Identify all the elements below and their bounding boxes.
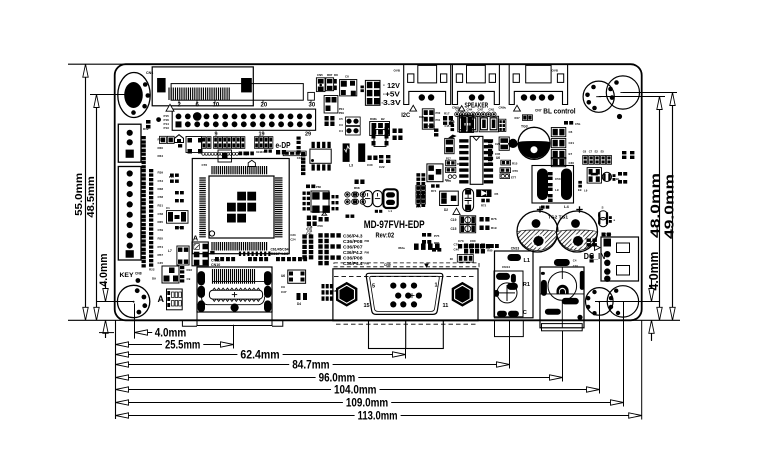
connector CN11/CN10 (HDMI)	[182, 259, 282, 327]
IC U13	[0, 0, 1, 1]
svg-text:C4: C4	[573, 259, 577, 263]
svg-text:29: 29	[305, 132, 311, 138]
svg-text:C30: C30	[569, 161, 575, 165]
svg-text:84.7mm: 84.7mm	[292, 360, 329, 372]
label OVB left	[394, 69, 401, 73]
resistor pads D11 P12	[160, 136, 175, 143]
svg-text:CN5: CN5	[317, 73, 323, 77]
svg-text:D5: D5	[495, 192, 499, 196]
svg-text:R35: R35	[158, 220, 164, 224]
svg-text:R76: R76	[513, 169, 519, 173]
marker pentagon 2	[248, 160, 255, 166]
diode D5 resistor R72	[476, 189, 498, 207]
svg-text:e-DP: e-DP	[276, 140, 291, 150]
svg-text:C33/P4.3C: C33/P4.3C	[271, 252, 290, 256]
svg-text:CN13: CN13	[511, 247, 520, 251]
jumper row speaker (CN0 CN4 CN7 CN1)	[455, 103, 499, 132]
svg-text:C6: C6	[583, 149, 587, 153]
svg-text:C35: C35	[495, 152, 501, 156]
capacitor column C6 C21 E7 C30	[551, 128, 574, 167]
capacitor grid column left	[416, 173, 425, 207]
labels CN designators	[452, 106, 507, 110]
diode D8	[334, 73, 338, 90]
svg-text:D9: D9	[152, 277, 156, 281]
via pad with labels R22 D9	[136, 268, 157, 283]
svg-text:C78: C78	[446, 179, 451, 183]
svg-text:352a: 352a	[398, 246, 405, 250]
diode D3	[509, 139, 517, 147]
resistor column R36..C45 (left stack)	[142, 136, 164, 268]
svg-text:10: 10	[213, 103, 220, 109]
svg-text:30: 30	[309, 103, 316, 109]
label I2C	[401, 112, 410, 119]
capacitor TG2 and capacitor TG1 (electrolytic)	[517, 206, 598, 252]
svg-text:R34: R34	[158, 154, 164, 158]
capacitor pads right of Y1	[332, 195, 339, 210]
marker triangle 3	[514, 105, 521, 111]
capacitor pads near CN4	[587, 239, 597, 263]
svg-text:3.3V: 3.3V	[383, 100, 401, 107]
svg-text:104.0mm: 104.0mm	[334, 385, 377, 397]
connector CN0 (JST top 1)	[404, 64, 451, 104]
connector CN12 (DC jack barrel)	[540, 259, 584, 331]
svg-text:96.0mm: 96.0mm	[319, 373, 356, 385]
capacitor pads E6 C20	[618, 151, 634, 184]
svg-text:C4: C4	[339, 129, 343, 133]
resistor network RN6	[445, 119, 506, 131]
capacitor row C55 row	[398, 244, 440, 251]
diode D2	[440, 191, 459, 212]
resistor R90	[602, 233, 611, 237]
svg-text:P17: P17	[446, 157, 451, 161]
svg-text:CN6: CN6	[146, 71, 153, 75]
IC U6 (SOP-16)	[459, 136, 500, 184]
mounting hole TL (CN6 side)	[118, 73, 150, 118]
svg-text:C: C	[523, 310, 527, 316]
svg-text:L9: L9	[555, 188, 559, 192]
svg-text:+5V: +5V	[385, 92, 400, 99]
connector CN7 (JST top 3 BL)	[509, 64, 567, 104]
connector CN9b (JST top 2 speaker)	[452, 64, 499, 104]
inductor L1b	[383, 189, 397, 213]
svg-text:C5b: C5b	[575, 122, 581, 126]
dimension 49.0mm (right)	[623, 93, 677, 321]
svg-text:R36b: R36b	[370, 117, 377, 121]
svg-text:E77: E77	[511, 176, 517, 180]
diode D10	[146, 120, 151, 129]
capacitor C23	[499, 137, 513, 150]
marker fiducial pentagon	[175, 135, 184, 143]
svg-text:CN14: CN14	[502, 265, 510, 269]
svg-text:C10: C10	[573, 264, 579, 268]
svg-text:C24: C24	[290, 238, 296, 242]
capacitor grid C75	[416, 185, 426, 209]
dimension 48.5mm (left)	[85, 95, 134, 321]
svg-text:R30: R30	[158, 146, 164, 150]
svg-text:C36/P4.3: C36/P4.3	[343, 233, 363, 238]
capacitor C16	[445, 135, 457, 154]
capacitor pads C2 C16	[393, 129, 403, 141]
svg-text:E2: E2	[595, 149, 599, 153]
svg-text:CN4: CN4	[467, 108, 473, 112]
svg-text:C80: C80	[470, 239, 476, 243]
svg-text:P01: P01	[436, 118, 441, 122]
svg-text:L7: L7	[168, 249, 172, 253]
svg-text:CN1: CN1	[489, 108, 495, 112]
IC U6b	[281, 270, 306, 283]
svg-text:BL control: BL control	[543, 108, 575, 115]
IC U15 with diode BL	[578, 168, 620, 193]
svg-text:F10: F10	[169, 175, 174, 179]
svg-text:R55: R55	[158, 237, 164, 241]
svg-text:I2C: I2C	[401, 112, 410, 119]
resistor R68	[354, 180, 365, 191]
svg-text:31423: 31423	[256, 150, 264, 154]
capacitor row under U2 (C61..C68)	[215, 252, 307, 262]
connector CN8 (KEY 9-pin)	[118, 167, 141, 261]
capacitor row C6b C7 E2 E5	[583, 149, 612, 164]
connector power pads (12V +5V 3.3V)	[365, 80, 401, 107]
svg-text:P66: P66	[316, 185, 321, 189]
dimension 62.4mm (bottom)	[116, 349, 406, 362]
connector CN4	[601, 233, 639, 282]
svg-text:R47: R47	[515, 116, 521, 120]
svg-text:P09: P09	[339, 111, 345, 115]
svg-text:R22: R22	[149, 268, 155, 272]
svg-text:48.5mm: 48.5mm	[85, 176, 97, 217]
marker triangle 1	[410, 105, 417, 111]
svg-text:C26: C26	[495, 142, 501, 146]
svg-text:C58: C58	[158, 195, 164, 199]
svg-text:S: S	[602, 206, 604, 210]
diode D4	[297, 293, 308, 306]
fuse F50	[318, 217, 329, 228]
svg-text:C15: C15	[445, 124, 450, 128]
svg-text:A: A	[158, 294, 165, 304]
svg-text:E9: E9	[578, 188, 582, 192]
mounting hole TR pair	[583, 76, 639, 119]
svg-text:R87: R87	[327, 73, 333, 77]
dimension 109.0mm (bottom)	[116, 302, 624, 410]
svg-text:CN7: CN7	[478, 108, 484, 112]
svg-text:C76: C76	[202, 163, 208, 167]
marker triangle 4	[453, 208, 460, 214]
capacitor C19 C15 (tantalum)	[451, 216, 497, 233]
svg-text:20: 20	[261, 103, 268, 109]
svg-text:1: 1	[435, 283, 438, 289]
resistor grid RP2	[370, 117, 390, 136]
svg-text:109.0mm: 109.0mm	[346, 398, 388, 410]
svg-text:C30: C30	[367, 163, 373, 167]
capacitor pads C63 C64	[345, 192, 366, 204]
IC U7	[372, 127, 389, 147]
resistor pads RP I2C	[419, 109, 441, 129]
mounting hole BR pair	[586, 286, 639, 317]
svg-text:MD-97FVH-EDP: MD-97FVH-EDP	[364, 219, 425, 231]
svg-text:C58: C58	[158, 212, 164, 216]
svg-text:15: 15	[364, 303, 370, 309]
svg-text:L1: L1	[389, 209, 393, 213]
svg-text:C59: C59	[158, 228, 164, 232]
IC U12 with label A	[158, 289, 183, 310]
svg-text:5: 5	[372, 284, 375, 290]
svg-text:38: 38	[450, 257, 453, 261]
svg-text:D2: D2	[444, 208, 448, 212]
svg-text:11: 11	[443, 303, 449, 309]
svg-text:4.0mm: 4.0mm	[98, 253, 110, 286]
svg-text:Rev:02: Rev:02	[376, 233, 395, 240]
svg-text:C3: C3	[339, 123, 343, 127]
resistor pads P75 P80	[422, 233, 441, 252]
IC U11	[162, 266, 179, 283]
label Rev02	[376, 233, 395, 240]
dimension 4.0mm (bottom)	[135, 304, 187, 340]
svg-text:C21: C21	[569, 141, 575, 145]
label BL control	[535, 108, 576, 115]
label e-DP	[276, 140, 291, 150]
svg-text:55.0mm: 55.0mm	[73, 173, 85, 216]
capacitor C5 C3 C4	[339, 117, 360, 135]
IC U5	[310, 142, 331, 171]
svg-text:62.4mm: 62.4mm	[240, 350, 279, 362]
svg-text:R80: R80	[487, 249, 493, 253]
svg-text:L1: L1	[524, 258, 530, 264]
capacitor grid C33 C24	[290, 225, 313, 259]
connector CN13 (audio jack)	[494, 247, 533, 337]
svg-text:C36/P08: C36/P08	[343, 256, 363, 261]
svg-text:B2: B2	[381, 117, 385, 121]
svg-text:C75: C75	[416, 205, 421, 209]
pin header CN12 (2x15)	[166, 104, 316, 137]
capacitor E1 E8	[598, 206, 615, 227]
resistor networks RN1 RN2 RN3 (eDP rows)	[202, 137, 306, 161]
capacitor C14	[428, 124, 438, 137]
connector CN6 (FFC/eDP 30-pin)	[146, 67, 316, 109]
diode D1	[427, 164, 449, 182]
capacitor row C73 C80	[458, 239, 499, 249]
resistor E11	[375, 210, 383, 213]
svg-text:C33: C33	[290, 233, 296, 237]
svg-text:KEY: KEY	[120, 272, 135, 279]
svg-text:25.5mm: 25.5mm	[165, 340, 200, 352]
svg-text:R31: R31	[158, 204, 164, 208]
resistor R33	[541, 206, 549, 209]
svg-text:P75: P75	[434, 234, 440, 238]
svg-text:CN9c: CN9c	[499, 106, 507, 110]
svg-text:R39: R39	[158, 171, 164, 175]
svg-text:C54: C54	[158, 179, 164, 183]
extension line left edge	[115, 320, 117, 419]
capacitor pads C31 C34	[301, 154, 305, 176]
dimension 25.5mm (bottom)	[116, 325, 234, 352]
connector CN3 (3-pin left)	[118, 124, 149, 162]
capacitor C28	[361, 86, 364, 93]
svg-text:OVB: OVB	[394, 69, 401, 73]
svg-text:R16: R16	[187, 268, 193, 272]
dimension 48.0mm (right)	[599, 97, 665, 321]
capacitor C18	[0, 0, 1, 1]
svg-text:F50: F50	[318, 224, 324, 228]
resistor R47	[515, 115, 533, 121]
svg-text:R1: R1	[523, 282, 530, 288]
svg-text:C36/P4.4: C36/P4.4	[343, 261, 363, 266]
resistor column R15 R76 E77	[500, 160, 518, 179]
svg-text:A: A	[193, 234, 199, 243]
svg-text:C50: C50	[555, 177, 561, 181]
svg-text:L4: L4	[564, 204, 569, 209]
device TG3	[518, 125, 550, 160]
svg-text:CN0b: CN0b	[452, 106, 460, 110]
svg-text:≡: ≡	[383, 84, 385, 88]
svg-text:TG2 TG1: TG2 TG1	[548, 215, 569, 220]
svg-text:R15: R15	[512, 162, 518, 166]
svg-text:12V: 12V	[387, 83, 400, 90]
capacitor pads D6 D7	[325, 116, 335, 126]
svg-text:R57: R57	[158, 253, 164, 257]
svg-text:U6: U6	[281, 274, 285, 278]
svg-text:CN8: CN8	[135, 272, 142, 276]
resistor R81	[346, 215, 355, 218]
svg-text:CN7: CN7	[535, 109, 542, 113]
svg-text:4.0mm: 4.0mm	[155, 328, 187, 340]
svg-text:C87: C87	[333, 289, 339, 293]
resistor pads left of Y1	[303, 192, 311, 211]
svg-text:R38: R38	[158, 187, 164, 191]
capacitor column C26 C35	[488, 140, 501, 166]
svg-text:L3: L3	[349, 164, 353, 168]
component D14	[218, 150, 232, 162]
capacitor column C51..C48 (left stack 2)	[149, 169, 153, 267]
svg-text:U6: U6	[496, 156, 500, 160]
svg-text:R68: R68	[354, 186, 360, 190]
svg-text:R72: R72	[481, 204, 487, 208]
label OVB right	[552, 69, 559, 73]
svg-text:C1: C1	[166, 206, 170, 210]
svg-text:E5: E5	[601, 149, 605, 153]
labels C9 C37 C87	[281, 285, 338, 294]
svg-text:C22: C22	[379, 165, 385, 169]
dimension 96.0mm (bottom)	[116, 331, 563, 385]
svg-text:113.0mm: 113.0mm	[358, 411, 398, 423]
crystal Y1 (X1)	[311, 191, 330, 215]
svg-text:R96: R96	[419, 115, 424, 119]
marker triangle 2	[459, 106, 465, 111]
center mark TR holes	[596, 93, 625, 97]
resistor P66	[306, 185, 321, 190]
resistor R16 capacitor C9	[180, 266, 192, 283]
svg-text:C40: C40	[454, 248, 460, 252]
svg-text:C7: C7	[589, 149, 593, 153]
svg-text:C41: C41	[307, 229, 313, 233]
svg-text:≡: ≡	[383, 93, 385, 97]
svg-text:D8: D8	[334, 73, 338, 77]
net labels C61 block	[210, 248, 289, 256]
svg-text:OVB: OVB	[552, 69, 559, 73]
svg-text:P00: P00	[436, 111, 441, 115]
dimension 113.0mm (bottom)	[116, 320, 642, 422]
capacitor C5c	[564, 121, 581, 126]
svg-text:P86: P86	[365, 239, 370, 243]
resistor R87	[326, 73, 334, 91]
label DC_IN	[584, 245, 606, 261]
resistor R74b	[431, 184, 440, 193]
connector CN5	[316, 73, 325, 92]
svg-text:D4: D4	[297, 302, 301, 306]
resistor array RN5	[322, 284, 333, 301]
label KEY	[120, 272, 142, 279]
svg-text:C73b: C73b	[428, 124, 435, 128]
test point P15 P16 P14 P13	[156, 114, 169, 130]
svg-text:L9: L9	[584, 189, 588, 193]
capacitor block C13	[460, 116, 474, 133]
connector CN16 (A-grid)	[192, 234, 208, 266]
extension line bottom right	[628, 319, 680, 321]
dimension 4.0mm (left)	[96, 253, 134, 338]
svg-text:48.0mm: 48.0mm	[648, 173, 663, 238]
svg-text:C8: C8	[345, 75, 349, 79]
resistor P17 R77 capacitor C78	[446, 157, 463, 184]
dimension 84.7mm (bottom)	[116, 337, 510, 372]
svg-text:C15: C15	[451, 227, 457, 231]
capacitor pads C22 C12	[379, 155, 390, 169]
capacitor C1 resistor R65	[166, 174, 188, 230]
svg-text:R76: R76	[491, 217, 497, 221]
svg-text:R74: R74	[158, 245, 164, 249]
dimension 104.0mm (bottom)	[116, 302, 600, 397]
capacitor C30	[367, 156, 378, 168]
svg-text:CN9: CN9	[384, 263, 391, 267]
IC U9	[168, 246, 189, 265]
svg-text:R19: R19	[491, 226, 497, 230]
svg-text:TG3: TG3	[521, 125, 528, 129]
capacitor C33 C34	[363, 191, 382, 207]
mounting hole BL (KEY side)	[117, 285, 149, 317]
svg-text:C36/P4.2: C36/P4.2	[343, 250, 363, 255]
capacitor C40 C41	[306, 216, 317, 236]
capacitor C17 (polarized)	[463, 189, 474, 212]
svg-text:C9: C9	[187, 277, 191, 281]
capacitor cluster C79 C40 C41b	[450, 243, 493, 263]
svg-text:E7: E7	[569, 152, 573, 156]
PCB board outline	[115, 64, 642, 320]
svg-text:P75: P75	[487, 244, 492, 248]
svg-text:P86: P86	[365, 261, 370, 265]
net labels C36/P4.x block	[318, 233, 369, 266]
svg-text:≡: ≡	[381, 101, 383, 105]
svg-text:C5: C5	[339, 117, 343, 121]
inductor L4	[532, 166, 574, 210]
IC U14	[324, 96, 344, 116]
svg-text:C6: C6	[569, 130, 573, 134]
svg-text:C79: C79	[454, 243, 460, 247]
svg-text:C36/P07: C36/P07	[343, 245, 363, 250]
connector CN9 (VGA D-sub)	[333, 263, 479, 349]
resistor R17	[443, 112, 453, 125]
svg-text:C9: C9	[281, 285, 285, 289]
svg-text:P13: P13	[164, 126, 170, 130]
svg-text:P86: P86	[365, 250, 370, 254]
svg-text:C19: C19	[451, 218, 457, 222]
IC U2 (QFP main controller)	[192, 159, 289, 254]
svg-text:C37: C37	[281, 290, 287, 294]
svg-text:R74: R74	[431, 189, 437, 193]
capacitor column C50 L9	[548, 172, 561, 202]
svg-text:49.0mm: 49.0mm	[662, 174, 677, 239]
svg-text:CN10: CN10	[211, 263, 220, 267]
svg-text:C45: C45	[158, 261, 164, 265]
IC U1	[178, 137, 203, 154]
svg-text:R17: R17	[444, 112, 450, 116]
